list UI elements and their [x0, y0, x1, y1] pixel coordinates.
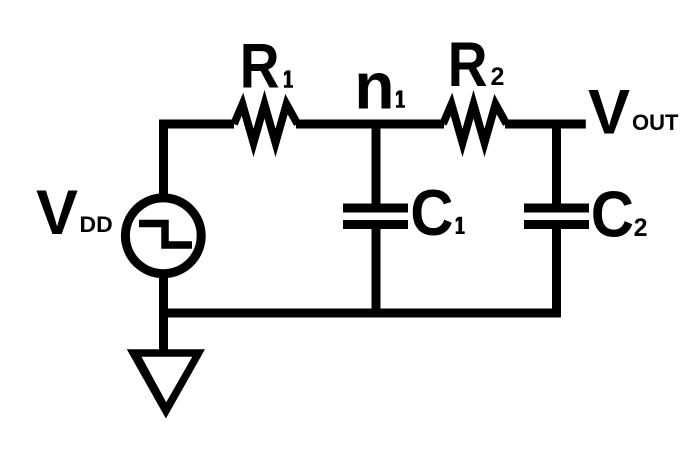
capacitor C1 label [410, 177, 465, 249]
wire: node n1 down to C1 [372, 120, 381, 209]
svg-text:C: C [410, 177, 453, 249]
wire: source bottom lead to ground [159, 274, 168, 355]
svg-text:DD: DD [80, 212, 113, 237]
svg-text:2: 2 [634, 214, 648, 242]
voltage source U1 (step source) circle [125, 198, 201, 274]
resistor R2 label [448, 30, 505, 100]
resistor R1 [234, 104, 298, 143]
resistor R1 label [240, 31, 293, 101]
node Vdd label [36, 178, 113, 248]
node Vout label [588, 78, 679, 148]
wire: C1 bottom to ground rail [372, 225, 381, 314]
step waveform symbol inside source [139, 224, 192, 246]
capacitor C1 [343, 208, 408, 225]
ground [127, 349, 205, 418]
wire: R1 to R2 through node n1 [296, 120, 444, 129]
svg-text:n: n [354, 48, 394, 122]
resistor R2 [443, 104, 507, 143]
node n1 label [354, 48, 405, 122]
wire: R2 to Vout terminal [505, 120, 586, 129]
svg-text:R: R [240, 31, 280, 101]
svg-text:2: 2 [491, 63, 505, 91]
capacitor C2 [524, 208, 589, 225]
wire: C2 bottom to ground rail corner [552, 225, 561, 318]
svg-text:V: V [36, 178, 78, 248]
wire: Vout node down to C2 [552, 120, 561, 209]
svg-text:C: C [591, 179, 634, 251]
svg-text:OUT: OUT [632, 110, 679, 135]
capacitor C2 label [591, 179, 648, 251]
wire: top-left corner from Vdd source up to R1 [164, 124, 235, 198]
svg-text:R: R [448, 30, 488, 100]
svg-text:V: V [588, 78, 630, 148]
wire: bottom ground rail [159, 309, 561, 318]
